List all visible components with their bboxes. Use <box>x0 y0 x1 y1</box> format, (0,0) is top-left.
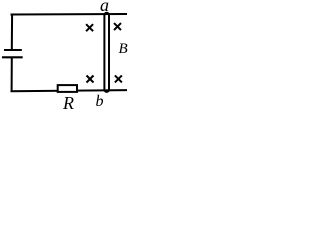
field symbol x top-right <box>114 23 121 30</box>
capacitor C top plate <box>4 49 22 51</box>
wire left lower <box>11 57 13 92</box>
field symbol x bottom-left <box>87 76 94 83</box>
wire bottom rail <box>11 90 128 91</box>
resistor R body <box>58 85 77 92</box>
node label b <box>96 94 104 110</box>
wire left upper <box>11 14 13 51</box>
wire top rail <box>11 13 128 16</box>
capacitor C bottom plate <box>2 56 23 58</box>
field symbol x bottom-right <box>115 75 122 82</box>
resistor label R <box>63 94 74 112</box>
conducting rod ab (capsule) <box>104 13 109 92</box>
field symbol x top-left <box>86 24 93 31</box>
node label a <box>100 0 109 14</box>
field label B <box>119 42 128 57</box>
